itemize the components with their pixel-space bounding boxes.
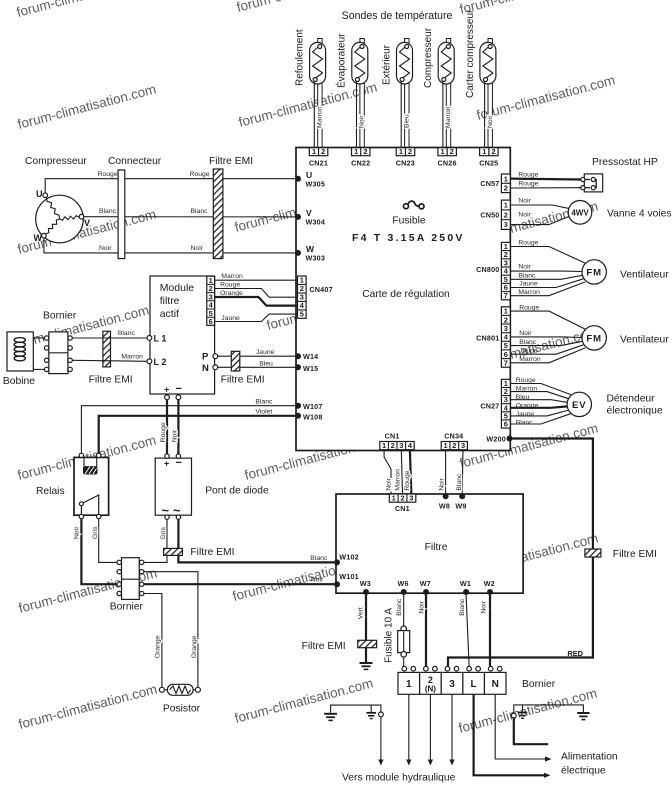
svg-text:Évaporateur: Évaporateur (335, 33, 348, 88)
svg-text:CN34: CN34 (444, 432, 463, 441)
svg-text:Carter compresseur: Carter compresseur (465, 9, 476, 98)
wire relais Gris to bornier row1 (92, 519, 117, 563)
wire CN27.6 Blanc to EV (510, 414, 570, 427)
connector CN21 (309, 147, 328, 168)
svg-text:W6: W6 (398, 579, 409, 588)
svg-text:Détendeur: Détendeur (607, 394, 656, 405)
sensor probe Extérieur (CN23) (381, 39, 412, 148)
svg-text:CN1: CN1 (395, 504, 410, 513)
connector CN23 (396, 147, 415, 168)
svg-text:W8: W8 (439, 501, 450, 510)
svg-text:Blanc: Blanc (99, 208, 117, 215)
wire module - Noir to pont de diode (172, 400, 179, 454)
svg-text:U: U (36, 189, 43, 199)
wire pont Gris to bornier row1 right (144, 519, 167, 562)
wire terminal 3 to hydraulic arrow (449, 694, 454, 765)
fan motor FM ventilateur 1 (582, 260, 672, 284)
wire CN1.3 Marron to filtre CN1.2 (395, 450, 403, 494)
svg-text:W304: W304 (306, 218, 326, 227)
svg-text:Jaune: Jaune (519, 281, 538, 288)
svg-text:Bleu: Bleu (403, 114, 410, 128)
svg-text:2: 2 (491, 147, 495, 156)
svg-text:Orange: Orange (191, 635, 198, 658)
terminal N on module (202, 363, 218, 374)
svg-text:Fusible 10 A: Fusible 10 A (384, 608, 395, 663)
svg-text:N: N (202, 363, 209, 374)
svg-text:CN57: CN57 (480, 179, 499, 188)
pressostat HP contact symbol (579, 174, 603, 192)
wire CN801.6 Jaune to FM2 (510, 345, 583, 355)
node W102 (334, 552, 359, 565)
wire W3 Vert to earth via filtre EMI (358, 595, 366, 662)
node W108 (295, 413, 323, 422)
filtre EMI (P/N lines) (221, 351, 265, 385)
wire W2 Noir to terminal N (481, 595, 491, 666)
svg-text:Marron: Marron (395, 469, 402, 491)
connector CN25 (479, 147, 498, 168)
sensor probe Refoulement (CN21) (295, 29, 326, 148)
pont de diode (155, 454, 269, 520)
terminal P on module (202, 352, 218, 363)
relais (36, 453, 109, 519)
svg-text:Bobine: Bobine (3, 376, 35, 387)
wire CN57.1 Rouge to pressostat (510, 171, 581, 179)
svg-text:Ventilateur 2: Ventilateur 2 (620, 335, 672, 346)
svg-text:Gris: Gris (160, 526, 167, 539)
node W107 (295, 402, 323, 411)
svg-text:Blanc: Blanc (516, 419, 534, 426)
node W1 (460, 579, 471, 595)
svg-text:Filtre EMI: Filtre EMI (302, 641, 346, 652)
svg-text:2: 2 (452, 441, 456, 450)
svg-text:Noir: Noir (439, 477, 446, 490)
ground (small, left earth bus) (366, 705, 376, 719)
svg-text:W9: W9 (455, 501, 466, 510)
module filtre actif pins 1-6 (207, 276, 215, 326)
svg-text:1: 1 (312, 147, 316, 156)
wire pont to W102 Blanc (178, 519, 334, 562)
svg-text:Marron: Marron (518, 289, 540, 296)
svg-text:Fusible: Fusible (392, 216, 425, 227)
svg-text:W7: W7 (420, 579, 431, 588)
module + terminal (164, 385, 169, 400)
svg-text:Filtre EMI: Filtre EMI (190, 547, 234, 558)
wire CN27.4 Orange to EV (510, 402, 567, 409)
svg-text:Pressostat HP: Pressostat HP (592, 157, 658, 168)
svg-text:Pont de diode: Pont de diode (205, 486, 269, 497)
svg-text:Connecteur: Connecteur (108, 156, 162, 167)
wire Blanc W107 to relais (81, 399, 296, 454)
wire module.1 Marron to CN407.1 (215, 273, 298, 280)
svg-text:CN25: CN25 (479, 159, 498, 168)
wire earth bus right (514, 705, 584, 713)
connector CN1 (board bottom) (380, 431, 414, 450)
svg-text:CN50: CN50 (480, 210, 499, 219)
svg-text:2: 2 (428, 675, 433, 685)
wire CN800.5 Blanc to FM1 (510, 272, 582, 279)
svg-text:Marron: Marron (317, 106, 324, 128)
svg-text:3: 3 (409, 494, 413, 503)
svg-text:Noir: Noir (518, 264, 531, 271)
wire compresseur U Rouge to board W305 (45, 171, 296, 193)
wire compresseur W Noir to board W303 (44, 238, 296, 253)
wire bornier row2 Orange to posistor right (144, 572, 198, 687)
wire earth to alimentation (514, 718, 548, 744)
node V W304 (295, 208, 325, 227)
connector CN57 (480, 174, 510, 193)
svg-text:Marron: Marron (121, 353, 143, 360)
terminal L1 on module (147, 334, 166, 344)
svg-text:Orange: Orange (220, 290, 243, 297)
bornier (upper) block (44, 332, 72, 374)
svg-text:électrique: électrique (561, 766, 606, 777)
node W W303 (295, 244, 325, 263)
svg-text:Noir: Noir (359, 115, 366, 128)
svg-text:W1: W1 (460, 579, 471, 588)
connector CN407 (298, 276, 333, 319)
bobine (coil) (3, 332, 35, 387)
wire CN34.1 Noir to W8 (439, 450, 446, 494)
node earth bus left (379, 712, 384, 717)
node W200 (486, 435, 512, 444)
svg-text:Violet: Violet (255, 409, 272, 416)
wire terminal 2N to hydraulic arrow (428, 694, 433, 765)
svg-text:CN801: CN801 (476, 333, 499, 342)
wire CN27.2 Marron to EV (510, 385, 569, 398)
module filtre actif (150, 276, 215, 394)
svg-text:2: 2 (450, 147, 454, 156)
connector CN34 (board bottom) (441, 432, 467, 451)
svg-text:L: L (471, 679, 477, 690)
svg-text:Sondes de température: Sondes de température (342, 10, 453, 22)
wire bobine to bornier row1 (33, 337, 44, 339)
svg-text:Noir: Noir (172, 429, 179, 442)
svg-text:Jaune: Jaune (221, 315, 240, 322)
svg-text:Rouge: Rouge (98, 171, 118, 178)
label Compresseur (25, 156, 87, 167)
sensor probe Carter compresseur (CN25) (465, 9, 496, 148)
node W8 (439, 493, 450, 510)
sensor probe Compresseur (CN26) (423, 27, 454, 147)
svg-text:CN21: CN21 (309, 159, 328, 168)
svg-text:Blanc: Blanc (518, 272, 536, 279)
svg-text:W3: W3 (360, 579, 371, 588)
svg-text:1: 1 (382, 441, 386, 450)
svg-text:Noir: Noir (419, 600, 426, 613)
svg-text:W14: W14 (303, 352, 318, 361)
label Vers module hydraulique (342, 773, 456, 784)
svg-text:Noir: Noir (311, 577, 324, 584)
wire W1 Blanc to terminal L (459, 595, 469, 666)
connector CN50 (480, 200, 510, 229)
svg-text:CN1: CN1 (385, 431, 400, 440)
svg-text:6: 6 (504, 350, 508, 359)
wire Violet W108 to relais (99, 409, 296, 454)
svg-text:2: 2 (400, 494, 404, 503)
svg-text:1: 1 (504, 174, 508, 183)
posistor (159, 684, 200, 714)
svg-text:4WV: 4WV (571, 208, 589, 217)
connector CN27 (480, 379, 510, 429)
svg-text:+: + (164, 459, 169, 469)
svg-text:Noir: Noir (74, 526, 81, 539)
svg-text:Rouge: Rouge (404, 470, 411, 490)
svg-text:Blanc: Blanc (456, 473, 463, 491)
connector CN26 (438, 147, 457, 168)
wire terminal N to alimentation arrow (495, 694, 551, 761)
wire CN801.4 Noir to FM2 (510, 330, 582, 338)
svg-text:Noir: Noir (481, 600, 488, 613)
wire Blanc bornier to L1 (72, 330, 147, 338)
svg-text:Refoulement: Refoulement (295, 29, 306, 86)
svg-text:Marron: Marron (519, 356, 541, 363)
svg-text:1: 1 (504, 201, 508, 210)
wire W200 RED to bornier terminal 3 (448, 439, 593, 667)
svg-text:6: 6 (504, 420, 508, 429)
svg-text:Noir: Noir (487, 115, 494, 128)
wire CN801.5 Blanc to FM2 (510, 339, 582, 346)
svg-text:U: U (306, 170, 312, 180)
wire CN50.3 Noir to 4WV (510, 211, 569, 224)
wire module.6 Jaune to CN407.5 (215, 314, 298, 322)
svg-text:5: 5 (300, 310, 304, 319)
filtre EMI (vert line) (302, 640, 377, 652)
svg-text:RED: RED (567, 649, 583, 658)
svg-text:V: V (84, 218, 90, 228)
svg-text:1: 1 (482, 147, 486, 156)
svg-text:+: + (164, 385, 169, 395)
svg-text:W2: W2 (484, 579, 495, 588)
svg-text:Extérieur: Extérieur (381, 44, 392, 85)
svg-text:1: 1 (399, 147, 403, 156)
svg-text:FM: FM (586, 333, 602, 344)
svg-text:Filtre EMI: Filtre EMI (221, 374, 265, 385)
carte de régulation board (296, 148, 510, 451)
svg-text:6: 6 (209, 317, 213, 326)
svg-text:CN23: CN23 (396, 159, 415, 168)
svg-text:Vert: Vert (358, 607, 365, 619)
wire W7 Noir to terminal 2N (419, 595, 427, 666)
svg-text:3: 3 (504, 220, 508, 229)
svg-text:Vanne 4 voies: Vanne 4 voies (607, 209, 672, 220)
svg-text:Filtre EMI: Filtre EMI (89, 374, 133, 385)
terminal L2 on module (147, 357, 166, 367)
wire bobine to bornier row4 (33, 368, 44, 370)
wire CN800.6 Jaune to FM1 (510, 279, 583, 288)
value label F4 T 3.15A 250V (352, 232, 465, 244)
svg-text:−: − (176, 383, 182, 395)
svg-text:Blanc: Blanc (255, 399, 273, 406)
svg-text:(N): (N) (425, 685, 436, 694)
svg-text:Noir: Noir (518, 197, 531, 204)
filtre EMI (compressor lines) (209, 156, 253, 259)
svg-text:V: V (306, 208, 312, 218)
wire terminal L to alimentation arrow (474, 694, 551, 778)
wire CN800.7 Marron to FM1 (510, 282, 585, 296)
fusible 10 A (384, 608, 410, 663)
compressor motor (34, 189, 91, 243)
svg-text:Bornier: Bornier (522, 679, 556, 690)
svg-text:CN27: CN27 (480, 402, 499, 411)
filtre EMI (right side) (585, 549, 657, 560)
svg-text:W102: W102 (339, 552, 359, 561)
svg-text:Compresseur: Compresseur (423, 27, 434, 88)
svg-text:Blanc: Blanc (396, 598, 403, 616)
svg-text:actif: actif (160, 308, 179, 320)
wire Marron bornier to L2 (72, 353, 147, 361)
svg-text:W107: W107 (303, 402, 323, 411)
svg-text:2: 2 (363, 147, 367, 156)
filtre EMI (bornier to module) (89, 331, 133, 385)
bornier (power terminal block) (398, 666, 556, 694)
node W6 (398, 579, 409, 595)
wire CN34.3 Blanc to W9 (456, 450, 463, 494)
connector CN801 (476, 307, 510, 368)
node W7 (420, 579, 431, 595)
ground (earth bus right end) (577, 713, 589, 720)
svg-text:Blanc: Blanc (118, 330, 136, 337)
svg-text:Noir: Noir (519, 330, 532, 337)
wire N Bleu to W15 (218, 360, 296, 367)
svg-text:3: 3 (461, 441, 465, 450)
svg-text:N: N (492, 679, 499, 690)
connector CN1 (filtre top) (389, 494, 416, 514)
svg-text:Blanc: Blanc (519, 339, 537, 346)
electronic expansion valve EV (567, 392, 663, 417)
svg-text:Rouge: Rouge (518, 180, 538, 187)
svg-text:Filtre EMI: Filtre EMI (209, 156, 253, 167)
svg-text:W: W (306, 244, 315, 254)
ground (earth bus left end) (324, 714, 337, 721)
wire CN50.1 Noir to 4WV (510, 197, 569, 208)
wire CN27.5 Jaune to EV (510, 410, 568, 418)
wire relais Noir to bornier row3 (74, 519, 117, 585)
svg-text:Posistor: Posistor (163, 704, 201, 715)
svg-text:W200: W200 (486, 435, 506, 444)
svg-text:Marron: Marron (221, 273, 243, 280)
vanne 4 voies coil 4WV (568, 201, 671, 225)
wire CN1.4 Rouge to filtre CN1.3 (404, 450, 411, 494)
svg-text:Blanc: Blanc (310, 555, 328, 562)
svg-text:Rouge: Rouge (190, 171, 210, 178)
wire P Jaune to W14 (218, 349, 296, 356)
svg-text:Rouge: Rouge (160, 422, 167, 442)
wire CN801.1 Rouge to FM2 (510, 304, 585, 329)
svg-text:Bleu: Bleu (259, 360, 273, 367)
wire W6 Blanc through fusible (396, 595, 404, 666)
svg-text:W303: W303 (306, 254, 326, 263)
wire earth bus left (331, 705, 381, 713)
filtre box (336, 494, 523, 593)
wire ground node to hydraulic arrow (378, 717, 383, 766)
node W9 (455, 493, 466, 510)
wire CN1.1 Noir to filtre CN1.1 (384, 450, 393, 494)
bornier (lower) block (110, 558, 144, 613)
svg-text:électronique: électronique (607, 406, 663, 417)
svg-text:W: W (34, 233, 43, 243)
svg-text:L 2: L 2 (154, 357, 167, 367)
svg-text:2: 2 (504, 184, 508, 193)
wire bornier row4 Orange to posistor left (144, 594, 162, 688)
wire CN800.4 Noir to FM1 (510, 264, 582, 272)
svg-text:FM: FM (586, 267, 602, 278)
node W15 (295, 364, 318, 373)
svg-text:Ventilateur 1: Ventilateur 1 (620, 270, 672, 281)
svg-text:Compresseur: Compresseur (25, 156, 87, 167)
wire bornier row3 Noir to W101 (144, 577, 334, 585)
node U W305 (295, 170, 325, 189)
svg-text:CN22: CN22 (351, 159, 370, 168)
svg-text:Marron: Marron (445, 106, 452, 128)
module - terminal (176, 383, 182, 400)
label Alimentation électrique (561, 752, 618, 777)
svg-text:3: 3 (399, 441, 403, 450)
connector CN800 (476, 242, 510, 300)
svg-text:Bornier: Bornier (110, 602, 144, 613)
svg-text:1: 1 (354, 147, 358, 156)
wire module + Rouge to pont de diode (160, 400, 167, 454)
wire CN27.1 Rouge to EV (510, 377, 571, 394)
svg-text:CN800: CN800 (476, 265, 499, 274)
svg-text:EV: EV (572, 400, 587, 411)
svg-text:2: 2 (321, 147, 325, 156)
svg-text:Alimentation: Alimentation (561, 752, 618, 763)
svg-text:Rouge: Rouge (518, 239, 538, 246)
svg-text:7: 7 (504, 359, 508, 368)
wire terminal 1 to hydraulic arrow (406, 694, 411, 765)
wire CN801.7 Marron to FM2 (510, 348, 585, 363)
svg-text:Noir: Noir (99, 245, 112, 252)
svg-text:1: 1 (444, 441, 448, 450)
label Pressostat HP (592, 157, 658, 168)
ground (vert line) (360, 663, 373, 669)
svg-text:Filtre EMI: Filtre EMI (613, 549, 657, 560)
svg-text:L 1: L 1 (154, 334, 167, 344)
svg-text:Carte de régulation: Carte de régulation (362, 289, 450, 300)
svg-text:Orange: Orange (516, 402, 539, 409)
svg-text:Rouge: Rouge (518, 171, 538, 178)
label Bornier (upper) (43, 311, 77, 322)
svg-text:7: 7 (504, 291, 508, 300)
svg-text:filtre: filtre (160, 295, 180, 307)
svg-text:Rouge: Rouge (516, 377, 536, 384)
wire CN800.1 Rouge to FM1 (510, 239, 585, 263)
wire module.3 Orange to CN407.4 (215, 290, 298, 305)
ground (small, right earth bus) (518, 705, 528, 718)
svg-text:W108: W108 (303, 413, 323, 422)
svg-text:Jaune: Jaune (516, 411, 535, 418)
fan motor FM ventilateur 2 (582, 326, 672, 350)
connector CN22 (351, 147, 370, 168)
node W2 (484, 579, 495, 595)
wire CN57.2 Rouge to pressostat (510, 180, 581, 188)
svg-text:2: 2 (391, 441, 395, 450)
svg-text:Filtre: Filtre (425, 542, 448, 553)
svg-text:−: − (176, 457, 182, 469)
svg-text:Vers module hydraulique: Vers module hydraulique (342, 773, 456, 784)
svg-text:Marron: Marron (516, 385, 538, 392)
svg-text:1: 1 (406, 679, 412, 690)
node W3 (360, 579, 371, 595)
node W101 (334, 572, 359, 587)
svg-text:Bornier: Bornier (43, 311, 77, 322)
fusible symbol on board (392, 201, 425, 226)
svg-text:Relais: Relais (36, 486, 65, 497)
svg-text:Rouge: Rouge (220, 282, 240, 289)
svg-text:Jaune: Jaune (519, 348, 538, 355)
svg-text:CN407: CN407 (309, 285, 332, 294)
node earth bus right (511, 713, 516, 718)
